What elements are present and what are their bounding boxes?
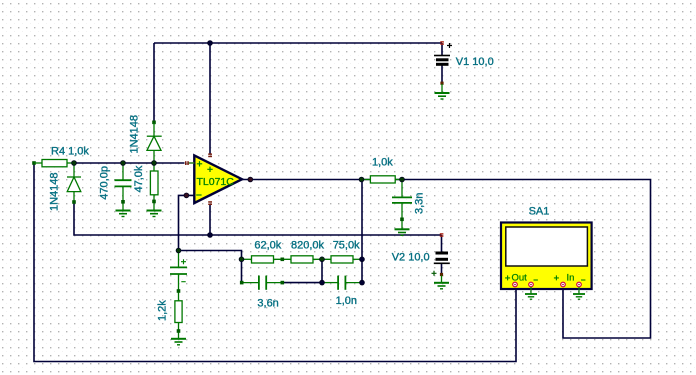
- svg-text:470,0p: 470,0p: [99, 166, 111, 200]
- svg-text:R4 1,0k: R4 1,0k: [51, 146, 89, 158]
- svg-text:V1 10,0: V1 10,0: [456, 56, 494, 68]
- svg-text:V2 10,0: V2 10,0: [392, 252, 430, 264]
- svg-text:TL071C: TL071C: [197, 176, 235, 188]
- svg-text:47,0k: 47,0k: [133, 165, 145, 192]
- svg-text:1,0n: 1,0n: [336, 295, 357, 307]
- svg-text:3,3n: 3,3n: [414, 193, 426, 214]
- svg-text:3,6n: 3,6n: [257, 298, 278, 310]
- svg-text:1N4148: 1N4148: [49, 172, 61, 211]
- svg-text:820,0k: 820,0k: [291, 240, 325, 252]
- svg-text:SA1: SA1: [529, 206, 550, 218]
- svg-text:62,0k: 62,0k: [254, 240, 281, 252]
- svg-text:Out: Out: [512, 272, 528, 283]
- svg-text:75,0k: 75,0k: [333, 240, 360, 252]
- svg-text:1N4148: 1N4148: [129, 115, 141, 154]
- svg-text:1,0k: 1,0k: [372, 157, 393, 169]
- svg-text:1,2k: 1,2k: [157, 300, 169, 321]
- svg-text:In: In: [567, 272, 575, 283]
